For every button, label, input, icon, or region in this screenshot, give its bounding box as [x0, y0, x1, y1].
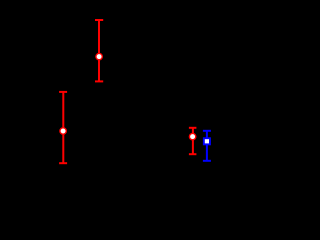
top cap bar 2 [59, 91, 67, 93]
top cap bar 1 [95, 19, 103, 21]
bottom cap bar 3 [189, 153, 197, 155]
wire: vertical line bar 4 [206, 131, 208, 161]
marker 1: red circle, white face [96, 53, 102, 59]
error bar 3 (red, right) [189, 128, 197, 154]
marker 2: red circle, white face [60, 128, 66, 134]
marker 4: blue square, white face [204, 138, 210, 144]
top cap bar 3 [189, 127, 197, 129]
bottom cap bar 4 [203, 160, 211, 162]
top cap bar 4 [203, 130, 211, 132]
error bar 4 (blue, far right) [203, 131, 211, 161]
error bar 2 (red, left) [59, 92, 67, 163]
wire: vertical line bar 3 [192, 128, 194, 154]
error bar 1 (red, top middle) [95, 20, 103, 81]
bottom cap bar 1 [95, 80, 103, 82]
bottom cap bar 2 [59, 162, 67, 164]
wire: vertical line bar 2 [62, 92, 64, 163]
marker 3: red circle, white face [189, 133, 195, 139]
wire: vertical line bar 1 [98, 20, 100, 81]
